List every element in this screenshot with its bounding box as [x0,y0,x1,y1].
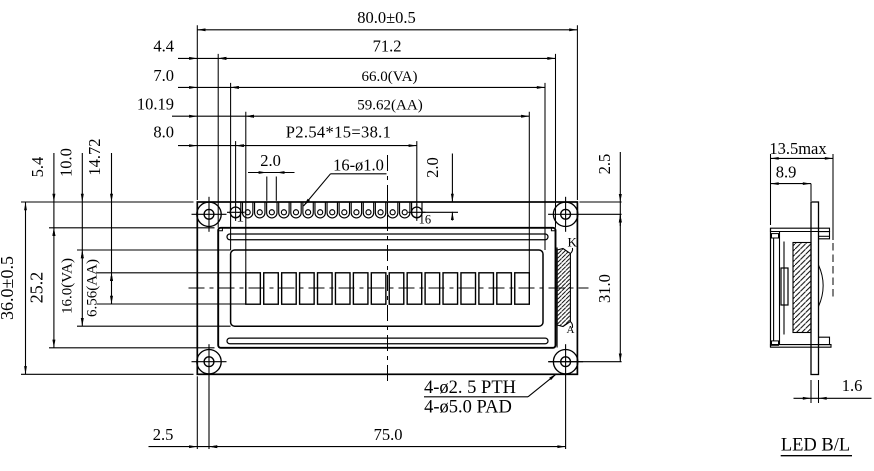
svg-text:66.0(VA): 66.0(VA) [362,69,418,85]
bezel top slot [227,234,548,240]
pin 6 hole 1.0 [293,210,298,215]
pin 9 hole 1.0 [330,210,335,215]
pin 12 hole 1.0 [366,210,371,215]
extension line bezel right top [555,54,557,228]
character block 3 [282,273,297,304]
bezel top-right corner step [551,228,555,231]
character block 2 [264,273,279,304]
dim 8.0 [178,145,236,147]
side view PCB [811,202,819,375]
svg-text:25.2: 25.2 [26,272,46,304]
pin 10 hole 1.0 [342,210,347,215]
svg-text:59.62(AA): 59.62(AA) [357,98,422,114]
pin 13 hole 1.0 [378,210,383,215]
extension line AA bottom left [97,303,246,305]
mounting hole top-right 2.5 PTH [561,209,571,219]
svg-text:16: 16 [419,213,432,227]
pin 12 castellation [363,202,373,218]
dim 2.0 pin row vertical [451,154,453,203]
extension line VA left top [230,83,232,250]
pin 16 pad with crosshair [411,207,422,218]
svg-text:75.0: 75.0 [374,425,403,444]
extension line PCB top left [21,201,194,203]
extension line bezel bottom left [49,347,215,349]
mounting hole top-right 5.0 pad [553,202,577,226]
pin 14 hole 1.0 [390,210,395,215]
side view module bottom cap [771,345,832,348]
dim 16.0(VA) [81,153,83,326]
side dim 13.5max extension left [770,154,772,225]
bezel outline [218,228,555,348]
svg-text:16.0(VA): 16.0(VA) [59,258,75,314]
extension line AA right top [528,112,530,273]
svg-text:A: A [567,324,575,336]
svg-text:10.0: 10.0 [57,148,76,177]
dim 36.0±0.5 [25,202,27,374]
pin 5 castellation [279,202,289,218]
svg-text:8.9: 8.9 [776,163,797,182]
mounting hole bottom-left 2.5 PTH [204,357,214,367]
pin 13 castellation [375,202,385,218]
dim 2.0 castellation width extension lines [266,177,268,201]
dim 71.2 [218,57,555,59]
side view bezel front face [770,228,772,347]
pin 10 castellation [339,202,349,218]
character block 7 [353,273,368,304]
side dim 8.9 [771,183,812,185]
svg-text:13.5max: 13.5max [769,139,827,158]
svg-text:2.5: 2.5 [595,154,614,175]
side dim 1.6 [794,397,872,399]
side view backlight lens arc [819,265,824,307]
side view frame inner line [783,242,785,335]
mounting hole top-left crosshair [192,213,227,215]
dim 80.0±0.5 [197,29,577,31]
pin 8 hole 1.0 [318,210,323,215]
side view elastomer block [781,268,788,305]
svg-text:1.6: 1.6 [842,376,863,395]
extension line VA right top [544,83,546,250]
svg-text:80.0±0.5: 80.0±0.5 [357,8,416,27]
svg-text:31.0: 31.0 [595,274,614,303]
extension line bezel top left [49,227,215,229]
svg-text:7.0: 7.0 [153,66,174,85]
pin 9 castellation [327,202,337,218]
svg-text:10.19: 10.19 [137,95,174,114]
extension line pin row right [422,211,458,213]
dim 59.62(AA) [246,115,530,117]
extension line bottom-right hole crosshair [549,361,622,363]
svg-text:2.5: 2.5 [153,425,174,444]
dim 2.0 castellation width [248,172,295,174]
svg-text:36.0±0.5: 36.0±0.5 [0,256,17,320]
svg-text:LED B/L: LED B/L [781,436,850,456]
mounting hole top-right crosshair [548,213,622,215]
pin 3 castellation [255,202,265,218]
dim 2.5 top right [619,152,621,226]
character block 8 [371,273,386,304]
pin 6 castellation [291,202,301,218]
extension line PCB bottom left [21,373,194,375]
mounting hole top-left 5.0 pad [197,202,221,226]
dim 5.4 [52,194,55,202]
side view pin hidden line [832,243,834,300]
svg-text:K: K [568,235,578,250]
pin 4 castellation [267,202,277,218]
character block 13 [461,273,476,304]
dim 10.0 [81,194,84,202]
side dim 8.9 extension [810,184,812,201]
svg-text:16-ø1.0: 16-ø1.0 [333,156,384,175]
mounting hole bottom-left 5.0 pad [197,350,221,374]
PCB outline [197,202,577,374]
vertical centerline [387,155,389,385]
svg-text:P2.54*15=38.1: P2.54*15=38.1 [286,123,392,142]
extension line PCB left top [196,25,198,200]
dim 4.4 [178,57,218,59]
pin 7 castellation [303,202,313,218]
pin 11 castellation [351,202,361,218]
pin 15 hole 1.0 [402,210,407,215]
mounting hole bottom-left crosshair [192,361,227,363]
character block 12 [443,273,458,304]
pin 1 castellation [230,202,240,218]
extension line bezel left top [217,54,219,228]
dim P2.54*15=38.1 [236,145,417,147]
pin 16 castellation [412,202,422,218]
character block 16 [515,273,530,304]
character block 10 [407,273,422,304]
pin 14 castellation [387,202,397,218]
svg-text:1: 1 [236,209,244,226]
backlight terminal K hook [570,248,572,254]
character block 4 [300,273,315,304]
side dim 13.5max extension right [832,154,834,240]
side view bezel top tab [772,234,779,238]
dim 14.72 [110,194,113,202]
side dim 1.6 extension lines [810,380,812,403]
dim 31.0 [619,214,621,361]
svg-text:6.56(AA): 6.56(AA) [84,259,100,317]
extension line PCB top right [579,201,621,203]
svg-text:14.72: 14.72 [85,138,104,175]
character block 15 [497,273,512,304]
extension line VA top left [77,249,231,251]
mounting hole top-left 2.5 PTH [204,209,214,219]
dim line bottom [149,446,566,448]
character block 11 [425,273,440,304]
pin 4 hole 1.0 [269,210,274,215]
pin 8 castellation [315,202,325,218]
pin 2 castellation [242,202,252,218]
svg-text:4-ø5.0 PAD: 4-ø5.0 PAD [424,397,512,417]
dim 10.19 [172,115,246,117]
dim 2.5 bottom arrows [189,445,197,448]
extension line pin1 [235,141,237,205]
mounting hole bottom-right 5.0 pad [553,350,577,374]
dim 75.0 arrows [209,445,217,448]
side view frame line [779,232,781,345]
character block 1 [246,273,261,304]
svg-text:4.4: 4.4 [153,36,174,55]
character block 14 [479,273,494,304]
bezel top-left corner step [218,228,222,231]
extension line AA top left [97,272,246,274]
svg-text:71.2: 71.2 [373,36,402,55]
dim 66.0(VA) [231,86,545,88]
side view LCD stack hatched [793,243,811,333]
pin 11 hole 1.0 [354,210,359,215]
side view pin header top block [819,232,830,239]
dim 7.0 [178,86,231,88]
pin 7 hole 1.0 [306,210,311,215]
side view bezel bottom tab [772,341,779,345]
side view module top cap [771,228,830,231]
extension line AA left top [245,112,247,273]
pin 5 hole 1.0 [281,210,286,215]
bezel bottom slot [227,338,548,344]
dim 25.2 [53,153,55,348]
svg-text:2.0: 2.0 [260,151,281,170]
svg-text:4-ø2. 5 PTH: 4-ø2. 5 PTH [424,378,516,398]
character block 5 [318,273,333,304]
pin 2 hole 1.0 [245,210,250,215]
svg-text:8.0: 8.0 [153,123,174,142]
extension line PCB left bottom [196,376,198,449]
pin 15 castellation [400,202,410,218]
svg-text:5.4: 5.4 [28,157,47,178]
backlight terminal A hook [570,322,572,329]
horizontal centerline [189,287,589,289]
dim 6.56(AA) [111,153,113,304]
display window VA [231,250,543,326]
svg-text:2.0: 2.0 [423,157,442,178]
extension line PCB right top [576,25,578,200]
character block 6 [335,273,350,304]
mounting hole bottom-right 2.5 PTH [561,357,571,367]
extension line pin16 [416,141,418,205]
side dim 13.5max [771,157,834,159]
side view pin header bottom block [819,337,830,344]
character block 9 [389,273,404,304]
pin 1 pad with crosshair [230,207,241,218]
pin 3 hole 1.0 [257,210,262,215]
mounting hole bottom-right crosshair [548,361,583,363]
extension line VA bottom left [77,325,231,327]
